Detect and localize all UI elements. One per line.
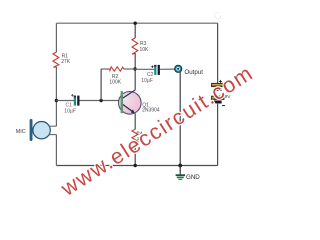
- svg-text:27K: 27K: [61, 59, 71, 65]
- wire R3 bottom lead: [134, 53, 136, 69]
- resistor R3: [132, 38, 138, 54]
- wire C2 to output: [160, 68, 175, 70]
- wire right rail upper: [217, 23, 219, 83]
- wire top rail V+: [56, 22, 217, 24]
- svg-text:10K: 10K: [140, 47, 150, 53]
- svg-text:10µF: 10µF: [64, 109, 76, 115]
- battery B1 9V: [212, 80, 226, 106]
- svg-text:10µF: 10µF: [141, 78, 153, 84]
- svg-text:2N3904: 2N3904: [142, 108, 160, 114]
- node emitter/ground: [134, 164, 137, 167]
- wire base wire to C1: [56, 100, 74, 102]
- resistor R4: [132, 129, 138, 143]
- wire left rail upper (to R1): [55, 23, 57, 52]
- svg-text:MIC: MIC: [16, 129, 26, 135]
- resistor R1: [53, 52, 59, 67]
- ground: [176, 166, 185, 180]
- capacitor C2: [151, 65, 160, 75]
- wire junction to C2: [135, 68, 155, 70]
- MIC microphone: [30, 119, 57, 141]
- node R2/base junction: [99, 99, 102, 102]
- node collector/R2/C2 junction: [133, 67, 136, 70]
- wire R4 to ground rail: [134, 143, 136, 166]
- transistor Q1: [119, 90, 142, 114]
- node gnd tap: [178, 164, 182, 168]
- wire right rail lower: [217, 104, 219, 166]
- node base-bias junction: [55, 99, 58, 102]
- output connector: [175, 65, 182, 72]
- wire C1 to base: [80, 100, 123, 102]
- svg-text:Output: Output: [184, 69, 203, 76]
- wire R3 top lead: [134, 23, 136, 38]
- wire output to ground rail: [179, 72, 181, 166]
- wire collector up: [134, 69, 136, 90]
- node top rail / R3: [134, 22, 137, 25]
- capacitor C1: [71, 94, 79, 106]
- wire bottom rail: [56, 165, 217, 167]
- wire emitter down: [134, 113, 136, 129]
- wire left rail mid (R1 to base node): [55, 67, 57, 126]
- svg-text:GND: GND: [186, 174, 200, 181]
- wire R2 drop to base: [100, 69, 102, 101]
- wire left rail lower (mic to ground rail): [55, 135, 57, 166]
- resistor R2: [101, 67, 135, 71]
- svg-text:100K: 100K: [109, 80, 121, 86]
